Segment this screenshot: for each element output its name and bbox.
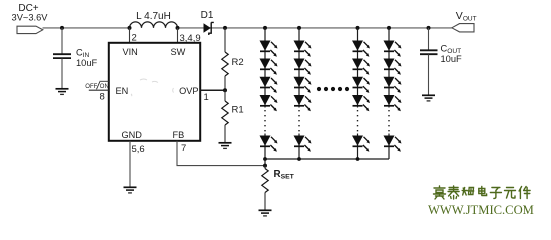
ground COUT [422, 95, 435, 101]
svg-text:OFF: OFF [85, 84, 97, 90]
LED column4 D20 [384, 95, 402, 111]
wire top rail right segment [178, 27, 452, 29]
svg-text:3V~3.6V: 3V~3.6V [12, 13, 49, 23]
wire column1 upper [264, 28, 266, 108]
LED string column 2 [294, 26, 312, 159]
wire column1 lower [264, 134, 266, 160]
LED column2 D8 [294, 59, 312, 75]
svg-text:5,6: 5,6 [132, 144, 145, 155]
LED column3 D14 [352, 77, 370, 93]
svg-text:FB: FB [173, 130, 185, 140]
wire COUT lead [428, 28, 430, 50]
svg-text:10uF: 10uF [76, 58, 98, 68]
svg-text:VIN: VIN [123, 47, 138, 57]
LED column3 D16 [352, 136, 370, 152]
svg-text:7: 7 [181, 143, 186, 154]
connector DC+ input [17, 26, 43, 33]
resistor R1 [222, 101, 228, 125]
ellipsis more LED strings [317, 87, 349, 91]
LED column2 D7 [294, 41, 312, 57]
wire EN lead [89, 89, 109, 91]
node column2 top junction [297, 26, 301, 30]
LED column1 D3 [260, 59, 278, 75]
ground RSET [259, 210, 272, 216]
node D1 cathode junction [223, 26, 227, 30]
wire column4 upper [388, 28, 390, 108]
connector VOUT output [452, 24, 474, 32]
wire R2 bottom lead [224, 76, 226, 90]
wire R2 top lead [224, 28, 226, 52]
LED column3 D15 [352, 95, 370, 111]
node column4 top junction [387, 26, 391, 30]
resistor RSET [262, 169, 268, 193]
node column3 top junction [356, 26, 360, 30]
wire column3 dotted continuation [357, 110, 359, 133]
wire rail to FB node [264, 159, 266, 166]
node COUT tap junction [427, 26, 431, 30]
LED column3 D13 [352, 59, 370, 75]
wire column1 dotted continuation [264, 110, 266, 133]
wire CIN lead [61, 28, 63, 54]
wire R1 bottom lead [224, 125, 226, 143]
svg-text:GND: GND [122, 130, 143, 140]
LED column3 D12 [352, 41, 370, 57]
LED column1 D4 [260, 77, 278, 93]
node inductor right junction [176, 26, 180, 30]
wire pin2 lead [129, 28, 131, 43]
LED string column 3 [352, 26, 370, 159]
wire top rail left segment [43, 27, 130, 29]
LED string column 4 [384, 26, 402, 159]
svg-text:8: 8 [100, 92, 105, 103]
wire R1 top lead [224, 90, 226, 101]
LED column4 D17 [384, 41, 402, 57]
svg-text:L 4.7uH: L 4.7uH [136, 11, 171, 22]
wire column4 lower [388, 134, 390, 160]
diode D1 (schottky) [204, 23, 211, 32]
svg-text:1: 1 [204, 92, 209, 103]
ground R1 [219, 143, 232, 149]
wire column3 lower [357, 134, 359, 160]
resistor R2 [222, 52, 228, 76]
wire column2 dotted continuation [298, 110, 300, 133]
faint interior watermark remnants [131, 79, 174, 96]
svg-text:WWW.JTMIC.COM: WWW.JTMIC.COM [428, 203, 534, 217]
LED column2 D11 [294, 136, 312, 152]
svg-text:10uF: 10uF [441, 54, 463, 64]
LED column2 D10 [294, 95, 312, 111]
svg-text:D1: D1 [201, 10, 214, 21]
watermark chinese text 嘉泰姆电子元件 [434, 186, 531, 199]
LED column4 D19 [384, 77, 402, 93]
node inductor left junction [128, 26, 132, 30]
node FB RSET junction [263, 164, 267, 168]
wire RSET top lead [264, 166, 266, 169]
wire LED bottom rail [265, 158, 389, 160]
capacitor CIN [53, 53, 71, 55]
node bottom rail col2 [297, 157, 301, 161]
wire column4 dotted continuation [388, 110, 390, 133]
wire pin349 lead [177, 28, 179, 43]
capacitor COUT [420, 49, 438, 51]
wire column3 upper [357, 28, 359, 108]
wire GND lead [129, 141, 131, 187]
svg-text:R1: R1 [232, 105, 244, 116]
LED string column 1 [260, 26, 278, 159]
wire COUT to ground [428, 55, 430, 96]
svg-text:R2: R2 [232, 57, 244, 68]
ground IC GND [124, 187, 137, 193]
LED column2 D9 [294, 77, 312, 93]
wire column2 upper [298, 28, 300, 108]
wire RSET bottom lead [264, 193, 266, 211]
node OVP divider junction [223, 88, 227, 92]
node CIN tap junction [60, 26, 64, 30]
svg-text:EN: EN [116, 86, 129, 96]
LED column1 D6 [260, 136, 278, 152]
LED column1 D5 [260, 95, 278, 111]
LED column1 D2 [260, 41, 278, 57]
ground CIN [56, 89, 69, 95]
LED column4 D18 [384, 59, 402, 75]
node bottom rail col1 [263, 157, 267, 161]
wire CIN to ground [61, 59, 63, 89]
svg-text:OVP: OVP [179, 86, 198, 96]
node column1 top junction [263, 26, 267, 30]
inductor L 4.7uH [130, 22, 178, 28]
svg-text:SW: SW [171, 47, 186, 57]
wire column2 lower [298, 134, 300, 160]
LED column4 D21 [384, 136, 402, 152]
node bottom rail col3 [356, 157, 360, 161]
svg-text:ON: ON [100, 84, 109, 90]
wire FB lead [177, 141, 265, 166]
IC U1 box [109, 43, 200, 141]
wire OVP lead pin1 [201, 89, 226, 91]
